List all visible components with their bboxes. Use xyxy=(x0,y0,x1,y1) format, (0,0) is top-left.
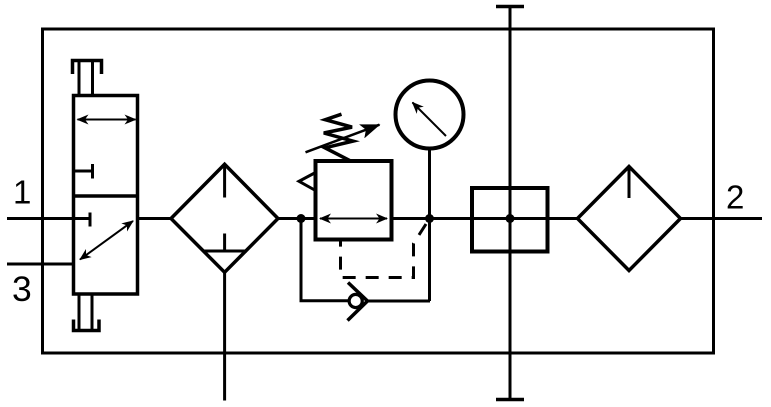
svg-text:1: 1 xyxy=(13,174,31,211)
svg-text:3: 3 xyxy=(12,269,32,309)
svg-text:2: 2 xyxy=(726,179,744,216)
